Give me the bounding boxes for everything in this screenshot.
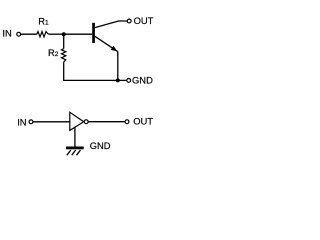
- svg-text:GND: GND: [90, 140, 111, 151]
- terminal circle GND (top): [127, 79, 131, 83]
- wire bottom rail (emitter node to GND terminal): [64, 79, 127, 82]
- node IN (top input label): [2, 27, 11, 38]
- node GND (top ground label): [132, 75, 153, 86]
- node OUT (bottom output label): [133, 116, 153, 127]
- wire junction down to R2: [63, 34, 65, 48]
- resistor R1: [37, 32, 49, 37]
- terminal circle OUT (bottom): [125, 120, 129, 124]
- node GND (bottom ground label): [90, 140, 111, 151]
- label R2: [48, 47, 59, 58]
- resistor R2: [62, 49, 66, 62]
- node IN (bottom input label): [17, 117, 26, 128]
- transistor Q1 collector lead to OUT: [95, 21, 127, 28]
- wire inverter to OUT terminal: [88, 121, 125, 123]
- svg-text:OUT: OUT: [134, 15, 154, 26]
- transistor Q1 emitter lead with arrow: [95, 36, 118, 51]
- wire junction to transistor base: [64, 33, 92, 35]
- terminal circle IN (top): [17, 32, 21, 36]
- terminal circle IN (bottom): [29, 120, 33, 124]
- svg-text:OUT: OUT: [133, 116, 153, 127]
- terminal circle OUT (top): [127, 19, 131, 23]
- svg-text:IN: IN: [17, 117, 26, 128]
- junction dot (base node): [62, 32, 66, 36]
- inverter U1 output bubble: [84, 120, 88, 124]
- junction dot (emitter / ground rail): [116, 78, 120, 82]
- ground symbol bar: [66, 147, 84, 150]
- wire emitter down to bottom rail: [117, 51, 119, 80]
- wire IN terminal to resistor R1: [21, 33, 37, 35]
- label R1: [38, 15, 49, 26]
- wire R1 to junction: [48, 33, 63, 35]
- wire inverter to ground symbol: [74, 127, 76, 146]
- svg-text:IN: IN: [2, 27, 11, 38]
- ground symbol hatch strokes: [67, 150, 81, 155]
- inverter U1 (triangle): [70, 112, 84, 130]
- wire IN terminal to inverter: [33, 121, 70, 123]
- svg-text:GND: GND: [132, 75, 153, 86]
- wire R2 to bottom rail: [63, 62, 65, 81]
- node OUT (top output label): [134, 15, 154, 26]
- transistor Q1 base bar: [92, 23, 95, 43]
